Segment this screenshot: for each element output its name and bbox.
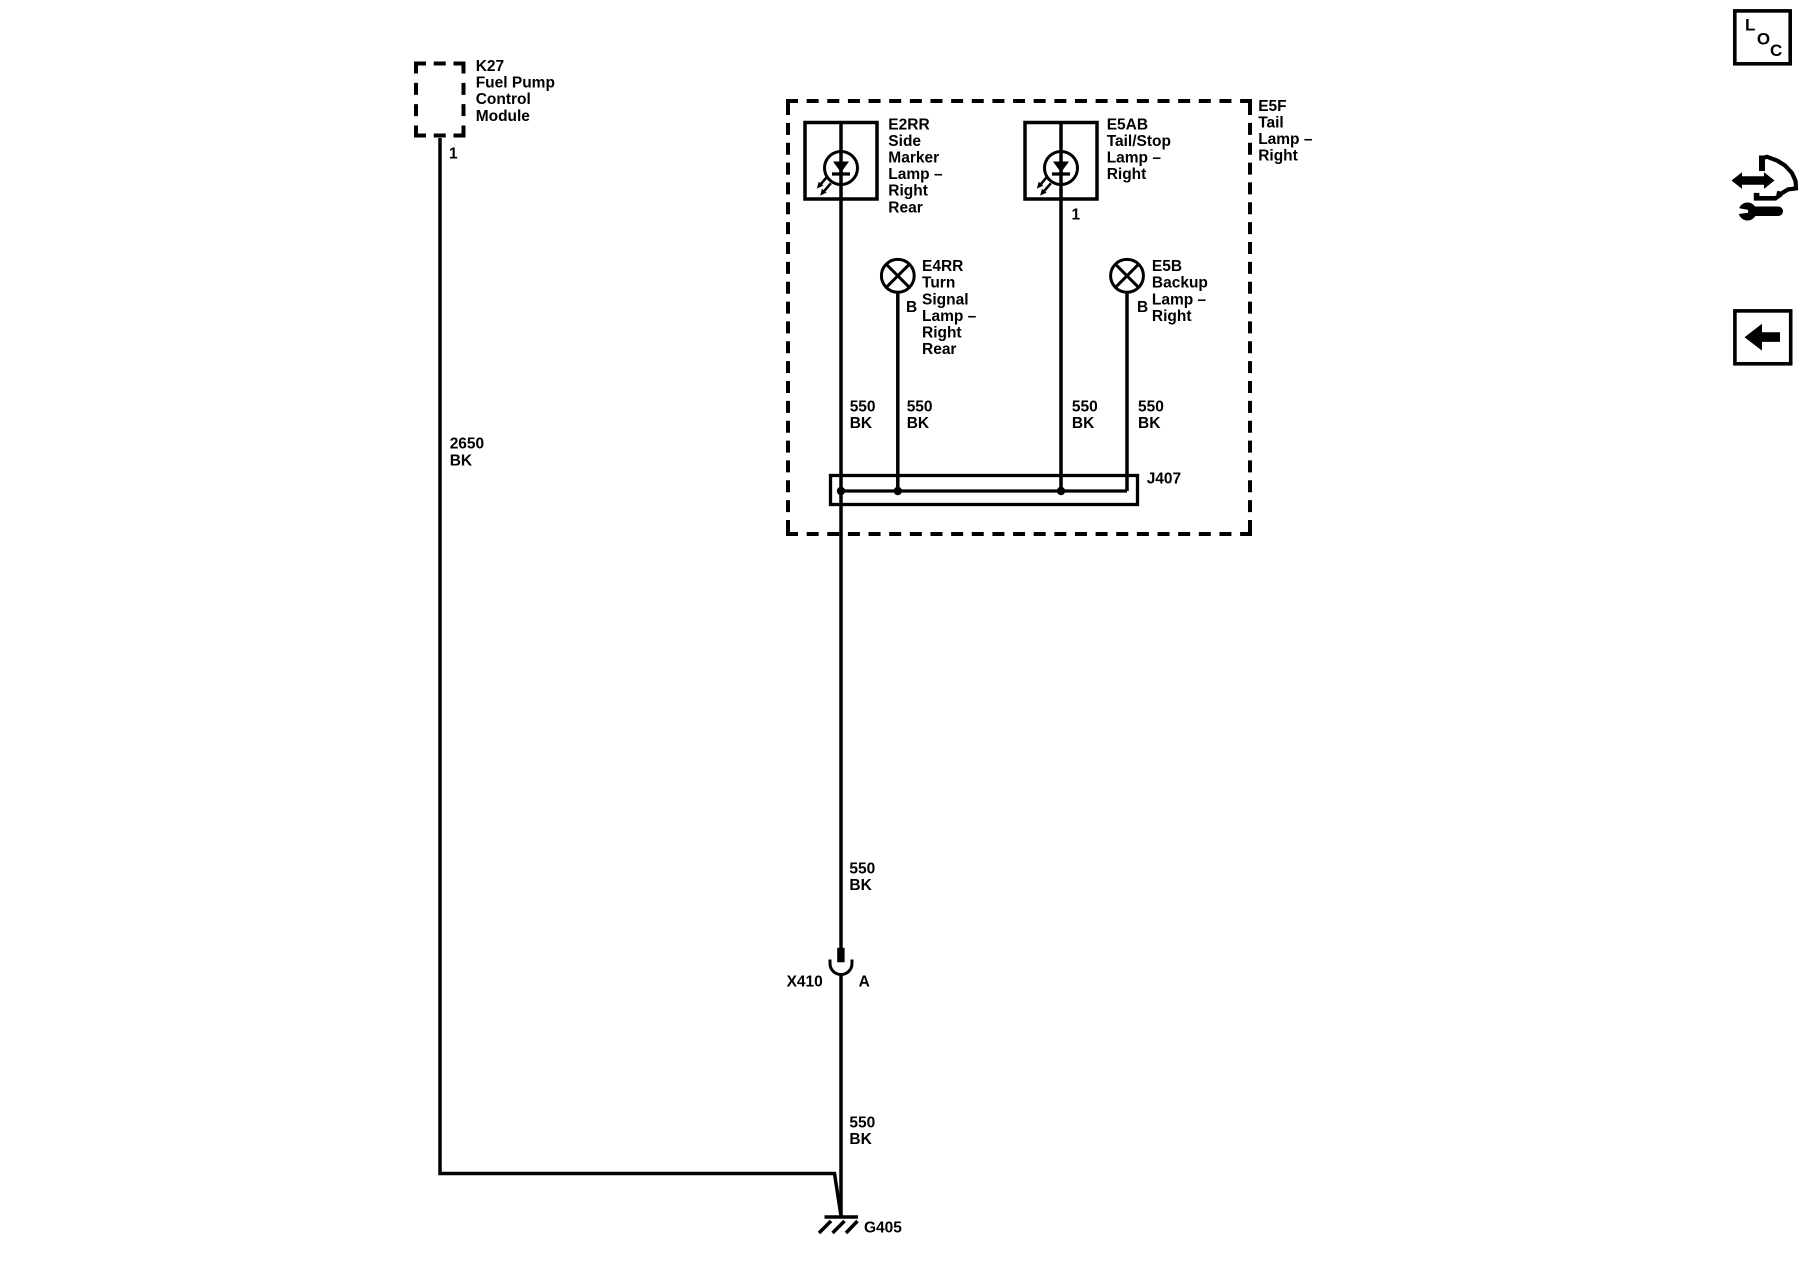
svg-text:J407: J407 <box>1147 471 1181 488</box>
module K27 Fuel Pump Control Module (dashed box) <box>414 62 466 138</box>
wire 550 BK from E5B pin B to J407 <box>1125 292 1129 491</box>
svg-text:C: C <box>1770 41 1782 60</box>
junction dot J407 wire E2RR <box>837 487 845 495</box>
svg-text:A: A <box>859 973 870 990</box>
svg-text:L: L <box>1745 16 1755 35</box>
wire 550 BK from E5AB pin 1 to J407 <box>1059 122 1063 491</box>
component box E5F Tail Lamp - Right (dashed) <box>786 101 1252 534</box>
wire 2650 BK from K27 pin 1 to G405 (vertical, horizontal, diagonal run) <box>440 138 841 1216</box>
lamp E5AB Tail/Stop Lamp - Right <box>1025 123 1097 200</box>
svg-text:550BK: 550BK <box>849 1115 875 1149</box>
svg-text:550BK: 550BK <box>1072 399 1098 433</box>
junction dot J407 wire E5AB <box>1057 487 1065 495</box>
inline connector X410 terminal A <box>830 948 852 975</box>
svg-text:B: B <box>906 299 917 316</box>
icon diagnostic information (double arrow with outline and wrench) <box>1732 156 1797 221</box>
bulb E4RR Turn Signal Lamp - Right Rear <box>881 259 914 292</box>
svg-text:1: 1 <box>1072 207 1081 224</box>
svg-text:B: B <box>1137 299 1148 316</box>
wire 550 BK from X410 to G405 <box>839 973 843 1216</box>
icon back arrow (bottom right) <box>1735 311 1791 364</box>
svg-text:G405: G405 <box>864 1220 902 1237</box>
lamp E2RR Side Marker Lamp - Right Rear <box>805 123 877 200</box>
svg-text:550BK: 550BK <box>907 399 933 433</box>
svg-text:550BK: 550BK <box>849 860 875 894</box>
wire 550 BK from E2RR down through J407 to X410 <box>839 122 843 948</box>
ground G405 <box>819 1217 858 1233</box>
splice pack J407 <box>831 476 1138 505</box>
svg-text:550BK: 550BK <box>1138 399 1164 433</box>
bulb E5B Backup Lamp - Right <box>1111 259 1144 292</box>
icon LOC (top right) <box>1735 11 1790 64</box>
svg-text:O: O <box>1757 30 1770 49</box>
junction dot J407 wire E4RR <box>894 487 902 495</box>
svg-text:1: 1 <box>449 146 458 163</box>
svg-text:550BK: 550BK <box>850 399 876 433</box>
wire 550 BK from E4RR pin B to J407 <box>896 292 900 491</box>
svg-text:X410: X410 <box>787 973 823 990</box>
